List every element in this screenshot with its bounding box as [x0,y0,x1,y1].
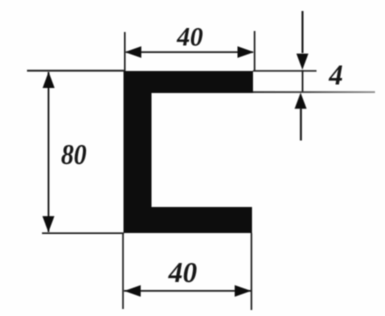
dimension line 40 top [126,51,253,53]
svg-text:40: 40 [168,258,198,289]
svg-text:4: 4 [328,60,343,91]
arrow right (40 bottom) [235,285,252,297]
C-channel profile (black cross-section) [124,71,254,233]
connector between flange faces (4 dim) [302,70,304,92]
arrow left (40 bottom) [124,285,141,297]
svg-text:40: 40 [176,23,203,52]
arrow up onto flange bottom (4 dim) [295,93,307,109]
dimension line 80 (vertical) [48,72,50,232]
arrow up (80 top) [43,72,55,88]
arrow down onto flange top (4 dim) [296,54,308,70]
leader line below (4 dim) [300,108,302,141]
extension line right of flange bottom (4 dim) [253,91,375,93]
dimension line 40 bottom [124,290,251,292]
arrow right (40 top) [238,46,255,58]
extension line left of bottom edge (80 dim, bottom) [42,232,124,234]
extension line top-left (40 top dim) [124,32,126,71]
svg-text:80: 80 [61,140,87,171]
extension line left of top edge (80 dim, top) [27,70,125,72]
extension line top-right (40 top dim) [254,31,256,71]
arrow left (40 top) [125,46,142,58]
extension line bottom-left (40 bottom dim) [122,234,124,309]
leader line above (4 dim) [302,11,304,53]
extension line right of flange top (4 dim) [253,70,317,72]
arrow down (80 bottom) [42,216,54,232]
extension line bottom-right (40 bottom dim) [251,233,253,310]
